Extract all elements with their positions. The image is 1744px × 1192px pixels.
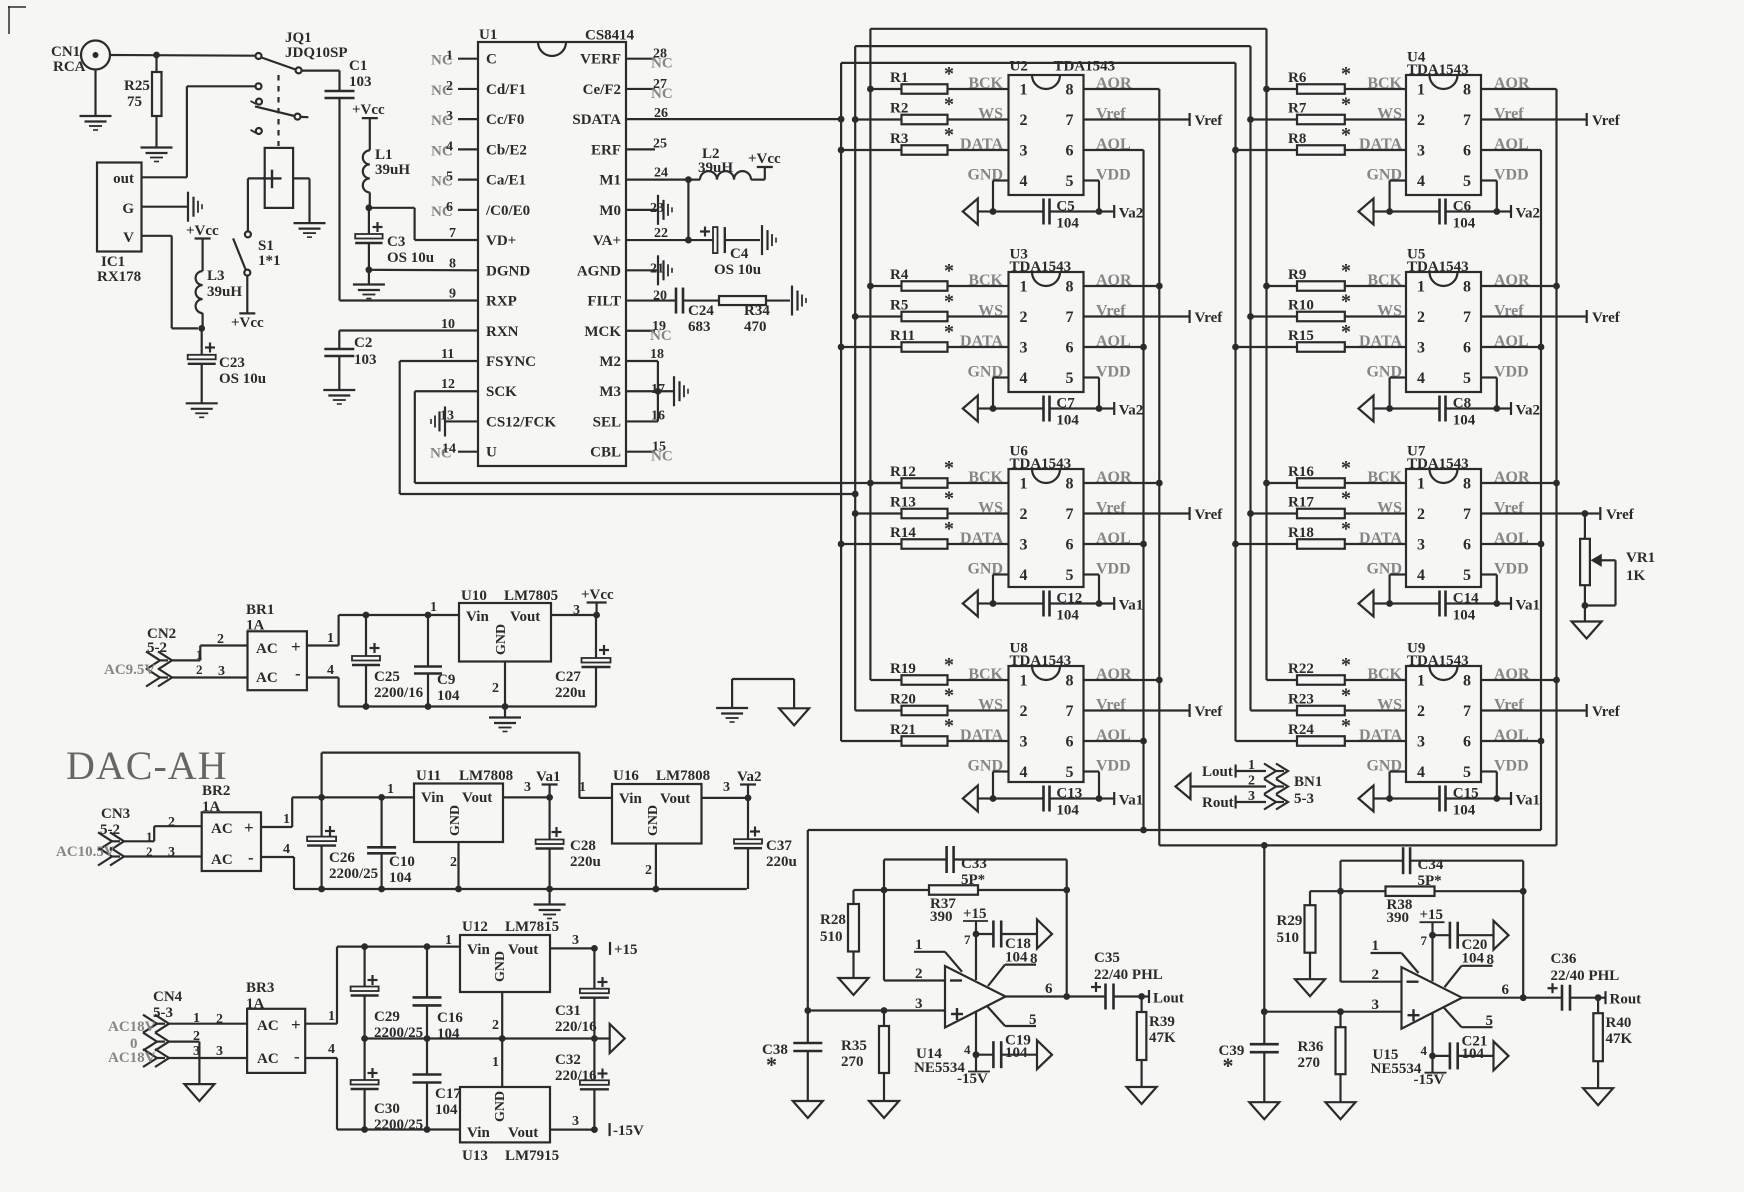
svg-text:BCK: BCK	[968, 75, 1003, 92]
terminal Va1	[1099, 597, 1143, 614]
svg-text:TDA1543: TDA1543	[1010, 653, 1072, 669]
U14 pin8 stub	[988, 951, 1038, 986]
bus AOL right column	[1538, 150, 1545, 830]
svg-text:3: 3	[446, 109, 453, 124]
svg-text:R36: R36	[1298, 1039, 1324, 1055]
svg-text:VDD: VDD	[1096, 167, 1131, 184]
svg-text:23: 23	[650, 201, 664, 216]
resistor R11	[841, 321, 1008, 352]
U2 VDD pin5	[1084, 167, 1131, 215]
svg-text:AC: AC	[211, 852, 233, 868]
title DAC-AH	[66, 743, 228, 788]
resistor R13	[855, 488, 1008, 519]
svg-text:*: *	[1341, 685, 1351, 707]
svg-text:VDD: VDD	[1096, 364, 1131, 381]
terminal +Vcc at U10	[581, 587, 614, 615]
svg-text:1: 1	[430, 600, 437, 615]
svg-text:2: 2	[1020, 506, 1028, 523]
U1 pin 19 NC	[626, 319, 672, 344]
U4 VDD pin5	[1481, 167, 1529, 215]
ground under C2	[323, 356, 355, 404]
U14 pin3 wire	[804, 996, 945, 1014]
svg-text:*: *	[1341, 715, 1351, 737]
svg-text:*: *	[944, 124, 954, 146]
svg-text:JQ1: JQ1	[285, 30, 312, 46]
svg-text:R14: R14	[890, 525, 916, 541]
svg-text:LM7805: LM7805	[504, 588, 558, 604]
resistor R10	[1251, 291, 1407, 322]
svg-text:R16: R16	[1288, 464, 1314, 480]
U1 pin 21 AGND ground	[626, 255, 672, 285]
feedback wire R37 row	[854, 887, 1071, 894]
IC U4 TDA1543 body	[1406, 50, 1481, 196]
svg-text:S1: S1	[258, 238, 274, 254]
resistor R36 270	[1298, 1012, 1346, 1074]
wire BR2 plus output	[261, 794, 414, 827]
U5 AOR pin8	[1481, 272, 1557, 289]
svg-text:out: out	[113, 171, 134, 187]
svg-text:3: 3	[193, 1044, 200, 1059]
svg-text:1: 1	[327, 631, 334, 646]
U8 VDD pin5	[1084, 758, 1131, 802]
resistor R29 510	[1277, 891, 1316, 953]
svg-text:Ce/F2: Ce/F2	[583, 82, 621, 98]
+Vcc above L1	[352, 102, 385, 150]
svg-text:2: 2	[446, 79, 453, 94]
svg-text:6: 6	[1066, 734, 1074, 751]
svg-text:2: 2	[915, 966, 923, 982]
svg-text:C7: C7	[1056, 396, 1075, 412]
svg-text:DATA: DATA	[960, 136, 1003, 153]
resistor R12	[870, 457, 1008, 488]
bus AOR right column	[1553, 89, 1560, 845]
resistor R25	[124, 52, 162, 116]
svg-text:DATA: DATA	[1359, 727, 1402, 744]
capacitor C10 104	[367, 797, 415, 889]
svg-text:6: 6	[1502, 982, 1510, 998]
svg-text:R3: R3	[890, 131, 908, 147]
wire U12 Vout to +15	[550, 945, 598, 952]
svg-text:3: 3	[1020, 143, 1028, 160]
svg-text:WS: WS	[1377, 500, 1402, 517]
svg-text:18: 18	[650, 347, 664, 362]
wire L1 node to VD+ pin7	[369, 208, 478, 240]
terminal Va1 at U11	[536, 769, 560, 797]
ground under C3	[353, 270, 385, 299]
U6 AOL pin6	[1084, 530, 1144, 547]
svg-text:TDA1543: TDA1543	[1054, 59, 1116, 75]
resistor R7	[1251, 94, 1407, 125]
svg-text:+Vcc: +Vcc	[748, 151, 781, 167]
svg-text:3: 3	[1020, 340, 1028, 357]
svg-text:4: 4	[1417, 173, 1425, 190]
svg-text:AC9.5V: AC9.5V	[104, 662, 155, 678]
svg-text:R22: R22	[1288, 661, 1314, 677]
svg-text:220/16: 220/16	[555, 1068, 597, 1084]
svg-text:3: 3	[1020, 537, 1028, 554]
svg-text:*: *	[944, 715, 954, 737]
svg-text:3: 3	[572, 1114, 579, 1129]
svg-text:12: 12	[441, 377, 455, 392]
svg-text:DATA: DATA	[1359, 136, 1402, 153]
svg-text:2: 2	[1372, 967, 1380, 983]
svg-text:Vout: Vout	[660, 791, 690, 807]
svg-text:R29: R29	[1277, 913, 1303, 929]
svg-text:VDD: VDD	[1494, 167, 1529, 184]
U6 GND pin4 and ground	[963, 561, 1009, 617]
U6 VDD pin5	[1084, 561, 1131, 607]
svg-text:Va1: Va1	[536, 769, 560, 785]
svg-text:104: 104	[1056, 803, 1079, 819]
svg-text:R9: R9	[1288, 267, 1306, 283]
ground under C39	[1249, 1052, 1279, 1119]
bridge rectifier BR3 1A	[246, 980, 305, 1073]
svg-text:*: *	[1341, 457, 1351, 479]
svg-text:Cc/F0: Cc/F0	[486, 112, 524, 128]
relay JQ1 coil	[263, 148, 294, 208]
svg-text:U2: U2	[1010, 59, 1028, 75]
svg-text:4: 4	[1417, 567, 1425, 584]
svg-text:+: +	[291, 1015, 301, 1034]
svg-text:5: 5	[446, 170, 453, 185]
svg-text:U: U	[486, 445, 497, 461]
terminal Va1	[1099, 792, 1143, 809]
svg-text:8: 8	[1066, 673, 1074, 690]
svg-text:1: 1	[1020, 82, 1028, 99]
capacitor C4 OS 10u	[700, 227, 761, 279]
node L1-C3	[366, 192, 373, 211]
svg-text:104: 104	[435, 1102, 458, 1118]
svg-text:4: 4	[283, 842, 290, 857]
svg-text:Va2: Va2	[1516, 403, 1540, 419]
svg-text:ERF: ERF	[591, 142, 621, 158]
svg-text:RX178: RX178	[97, 269, 141, 285]
svg-text:47K: 47K	[1149, 1030, 1176, 1046]
resistor R18	[1236, 518, 1407, 549]
svg-text:C5: C5	[1056, 199, 1074, 215]
svg-text:6: 6	[1066, 143, 1074, 160]
U9 VDD pin5	[1481, 758, 1529, 802]
resistor R2	[855, 94, 1008, 125]
svg-text:8: 8	[1066, 82, 1074, 99]
U1 pins M2 M3 SEL bracket	[626, 347, 673, 423]
svg-text:CN3: CN3	[101, 806, 130, 822]
capacitor C1 103	[302, 58, 372, 98]
svg-text:R40: R40	[1606, 1015, 1632, 1031]
svg-text:3: 3	[1020, 734, 1028, 751]
svg-text:C30: C30	[374, 1101, 400, 1117]
U5 AOL pin6	[1481, 333, 1541, 350]
svg-text:R8: R8	[1288, 131, 1306, 147]
connector CN1 RCA	[51, 41, 110, 76]
+Vcc right of L2	[748, 151, 781, 180]
svg-text:C13: C13	[1056, 786, 1082, 802]
svg-text:-: -	[295, 664, 301, 683]
ground right of C21	[1494, 1041, 1509, 1070]
capacitor C32 220/16	[555, 1039, 609, 1130]
svg-text:470: 470	[744, 319, 767, 335]
U1 wire FSYNC pin11	[400, 361, 859, 497]
U8 AOL pin6	[1084, 727, 1144, 744]
svg-text:5: 5	[1066, 370, 1074, 387]
svg-text:BCK: BCK	[1367, 666, 1402, 683]
svg-text:220/16: 220/16	[555, 1019, 597, 1035]
svg-text:Va2: Va2	[1119, 206, 1143, 222]
svg-text:8: 8	[1487, 952, 1495, 968]
ground under C38	[793, 1051, 823, 1118]
svg-text:6: 6	[1045, 981, 1053, 997]
svg-text:Va2: Va2	[1119, 403, 1143, 419]
svg-text:7: 7	[449, 226, 456, 241]
svg-text:VDD: VDD	[1494, 758, 1529, 775]
svg-text:BR3: BR3	[246, 980, 274, 996]
svg-text:C12: C12	[1056, 591, 1082, 607]
svg-text:5: 5	[1463, 370, 1471, 387]
U1 left pin labels	[485, 52, 556, 461]
svg-text:NC: NC	[650, 328, 672, 344]
feedback wire R38 row	[1310, 888, 1527, 895]
ground under R39	[1127, 1060, 1157, 1104]
terminal Lout	[1142, 990, 1184, 1007]
+Vcc above L3	[186, 223, 219, 271]
svg-text:Rout: Rout	[1202, 795, 1234, 811]
U15 pin2 wire	[1341, 891, 1402, 983]
svg-text:2: 2	[1020, 703, 1028, 720]
svg-text:L1: L1	[375, 147, 393, 163]
wire U11 Vout to Va1	[503, 794, 553, 801]
svg-text:AC18V: AC18V	[108, 1019, 156, 1035]
svg-text:1: 1	[1020, 279, 1028, 296]
svg-text:7: 7	[1066, 112, 1074, 129]
svg-text:R7: R7	[1288, 101, 1307, 117]
svg-text:14: 14	[442, 442, 456, 457]
svg-text:104: 104	[1462, 951, 1485, 967]
svg-text:GND: GND	[448, 805, 463, 836]
svg-text:1: 1	[1417, 82, 1425, 99]
svg-text:Vref: Vref	[1195, 113, 1224, 129]
svg-text:3: 3	[216, 1044, 223, 1059]
resistor R8	[1236, 124, 1407, 155]
svg-text:M0: M0	[599, 203, 621, 219]
svg-text:7: 7	[1463, 112, 1471, 129]
svg-text:39uH: 39uH	[698, 160, 733, 176]
svg-text:M2: M2	[599, 354, 621, 370]
capacitor C20 104	[1433, 922, 1494, 967]
svg-text:C32: C32	[555, 1052, 581, 1068]
wire CN4 pin3 to BR3	[167, 1044, 247, 1059]
terminal -15V	[610, 1123, 644, 1139]
resistor R15	[1236, 321, 1407, 352]
svg-text:4: 4	[1020, 764, 1028, 781]
svg-text:GND: GND	[646, 805, 661, 836]
svg-text:270: 270	[841, 1054, 864, 1070]
middle zero volt rail	[361, 1035, 610, 1042]
U5 Vref pin7 terminal	[1481, 303, 1621, 327]
svg-text:1: 1	[1417, 673, 1425, 690]
svg-text:39uH: 39uH	[207, 284, 242, 300]
svg-text:R4: R4	[890, 267, 909, 283]
wire CN2 pin1 to BR1	[170, 632, 248, 662]
svg-text:NC: NC	[651, 86, 673, 102]
switch S1	[233, 231, 280, 275]
inductor L1 39uH	[363, 147, 411, 192]
svg-text:R13: R13	[890, 495, 916, 511]
svg-text:*: *	[1341, 63, 1351, 85]
U1 wire FILT pin20	[626, 289, 670, 304]
svg-text:10: 10	[441, 317, 455, 332]
svg-text:*: *	[944, 291, 954, 313]
svg-text:R23: R23	[1288, 692, 1314, 708]
svg-text:220u: 220u	[570, 854, 601, 870]
svg-text:2: 2	[1417, 112, 1425, 129]
svg-text:NC: NC	[651, 449, 673, 465]
svg-text:8: 8	[1066, 476, 1074, 493]
svg-text:4: 4	[327, 663, 334, 678]
wire IC1 G to ground	[142, 192, 203, 222]
svg-text:1: 1	[1020, 673, 1028, 690]
svg-text:2: 2	[168, 815, 175, 830]
svg-text:22/40 PHL: 22/40 PHL	[1094, 967, 1163, 983]
svg-text:8: 8	[1066, 279, 1074, 296]
svg-text:220u: 220u	[766, 854, 797, 870]
svg-text:Vref: Vref	[1195, 704, 1224, 720]
U1 pin 25 stub	[626, 136, 667, 151]
svg-text:1A: 1A	[246, 618, 265, 634]
svg-text:3: 3	[168, 845, 175, 860]
U15 pin4 -15V supply	[1414, 1012, 1447, 1088]
svg-text:SCK: SCK	[486, 384, 517, 400]
resistor R9	[1267, 260, 1407, 291]
svg-text:VERF: VERF	[580, 52, 621, 68]
svg-text:3: 3	[572, 933, 579, 948]
svg-text:*: *	[944, 488, 954, 510]
U14 pin5 stub	[987, 1006, 1037, 1028]
optical receiver IC1 RX178	[97, 163, 142, 286]
wire U13 Vout to -15V	[550, 1126, 598, 1133]
svg-text:R39: R39	[1149, 1014, 1175, 1030]
U15 pin1 stub	[1371, 938, 1419, 973]
resistor R1	[870, 63, 1008, 94]
svg-text:5P*: 5P*	[1418, 873, 1442, 889]
ground tie	[716, 679, 809, 725]
bus BCK right column	[1263, 29, 1270, 680]
svg-text:*: *	[944, 654, 954, 676]
bus AOL left column	[1140, 150, 1147, 833]
svg-text:*: *	[1341, 124, 1351, 146]
svg-text:104: 104	[1056, 608, 1079, 624]
IC U9 TDA1543 body	[1406, 641, 1481, 783]
svg-text:1: 1	[328, 1009, 335, 1024]
svg-text:5: 5	[1066, 173, 1074, 190]
U2 GND pin4 and ground	[963, 167, 1009, 225]
svg-text:+Vcc: +Vcc	[186, 223, 219, 239]
svg-text:*: *	[1341, 291, 1351, 313]
capacitor C35 22/40 PHL	[1091, 950, 1163, 1010]
svg-text:7: 7	[964, 932, 971, 947]
svg-text:2: 2	[1417, 309, 1425, 326]
resistor R37 390	[929, 885, 978, 925]
svg-text:TDA1543: TDA1543	[1407, 456, 1469, 472]
svg-text:4: 4	[1020, 567, 1028, 584]
corner mark	[8, 6, 26, 34]
svg-text:R2: R2	[890, 101, 908, 117]
svg-text:1: 1	[445, 933, 452, 948]
svg-text:8: 8	[1463, 279, 1471, 296]
svg-text:Cb/E2: Cb/E2	[486, 142, 527, 158]
svg-text:2: 2	[1417, 506, 1425, 523]
svg-text:104: 104	[1462, 1046, 1485, 1062]
svg-text:510: 510	[1277, 930, 1300, 946]
U1 pin 2 NC	[431, 79, 478, 99]
svg-text:C10: C10	[389, 854, 415, 870]
svg-text:DATA: DATA	[960, 530, 1003, 547]
svg-text:Lout: Lout	[1202, 764, 1233, 780]
svg-text:8: 8	[449, 256, 456, 271]
resistor R3	[841, 124, 1008, 155]
resistor R20	[855, 685, 1008, 716]
U1 wire SCK pin12 to R12 row	[415, 391, 902, 483]
IC U8 TDA1543 body	[1009, 641, 1084, 783]
svg-text:C33: C33	[961, 856, 987, 872]
svg-text:R18: R18	[1288, 525, 1314, 541]
svg-text:6: 6	[446, 200, 453, 215]
svg-text:Vout: Vout	[508, 1125, 538, 1141]
svg-text:1: 1	[1248, 758, 1255, 773]
capacitor C30 2200/25	[351, 1039, 424, 1134]
U4 AOL pin6	[1481, 136, 1541, 153]
svg-text:Va2: Va2	[1516, 206, 1540, 222]
resistor R22	[1267, 654, 1407, 685]
capacitor C36 22/40 PHL	[1548, 951, 1620, 1011]
ground right of C20	[1494, 921, 1509, 950]
svg-text:R19: R19	[890, 661, 916, 677]
svg-text:+: +	[291, 637, 301, 656]
wire CN2 pin2 to BR1	[170, 662, 248, 679]
svg-text:C35: C35	[1094, 950, 1120, 966]
wire IC1 V	[142, 236, 199, 329]
capacitor C8 104	[1390, 396, 1497, 429]
svg-text:M1: M1	[599, 173, 621, 189]
capacitor C31 220/16	[555, 948, 609, 1038]
svg-text:BCK: BCK	[968, 469, 1003, 486]
capacitor C6 104	[1390, 199, 1497, 232]
svg-text:C27: C27	[555, 669, 581, 685]
svg-text:C29: C29	[374, 1009, 400, 1025]
svg-text:3: 3	[1417, 537, 1425, 554]
svg-text:C16: C16	[437, 1010, 463, 1026]
svg-text:1: 1	[446, 49, 453, 64]
capacitor C16 104	[413, 947, 464, 1042]
svg-text:C8: C8	[1453, 396, 1471, 412]
svg-text:FSYNC: FSYNC	[486, 354, 536, 370]
svg-text:L3: L3	[207, 268, 225, 284]
svg-text:RCA: RCA	[53, 59, 86, 75]
svg-text:*: *	[1223, 1053, 1234, 1078]
terminal Rout	[1598, 991, 1641, 1008]
svg-text:Vref: Vref	[1606, 507, 1635, 523]
svg-text:+15: +15	[963, 906, 987, 922]
svg-text:1: 1	[1417, 476, 1425, 493]
U1 pin 15 NC	[626, 440, 673, 465]
wire BR2 minus output	[261, 842, 747, 892]
svg-text:6: 6	[1463, 537, 1471, 554]
capacitor C34 5P*	[1341, 847, 1524, 891]
U15 pin3 wire	[1261, 997, 1402, 1015]
svg-text:2200/25: 2200/25	[374, 1117, 423, 1133]
svg-text:C37: C37	[766, 838, 792, 854]
svg-text:IC1: IC1	[101, 254, 125, 270]
bus WS right column	[1247, 46, 1254, 710]
